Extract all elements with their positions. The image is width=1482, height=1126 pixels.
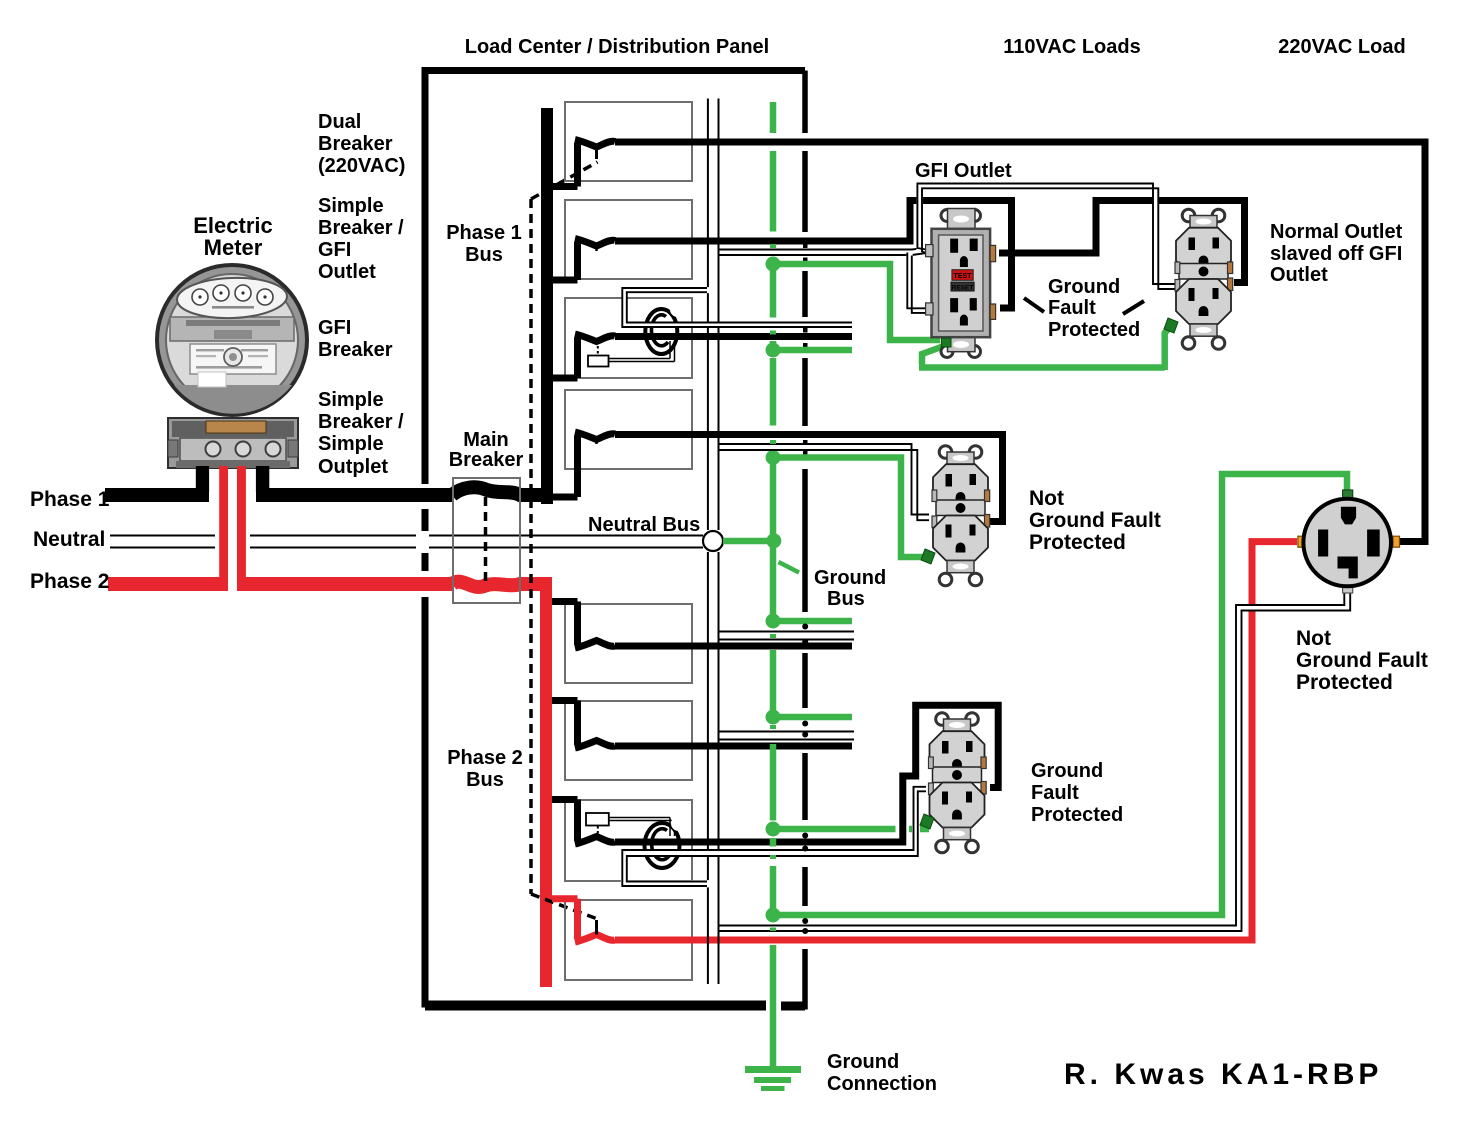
svg-text:RESET: RESET	[952, 285, 974, 292]
svg-text:Simple: Simple	[318, 389, 384, 411]
green wire row6 stub	[776, 714, 852, 721]
svg-text:Phase 1: Phase 1	[30, 488, 110, 511]
ground symbol	[745, 1070, 801, 1089]
breaker CB7 wire to bottom outlet	[615, 705, 998, 842]
green wire row5 stub	[776, 618, 852, 625]
svg-text:Ground Fault: Ground Fault	[1029, 509, 1161, 532]
svg-text:Main: Main	[463, 429, 509, 451]
phase 1 service wire	[105, 487, 553, 495]
breaker box CB4	[552, 390, 692, 497]
ground bus pointer	[779, 562, 800, 573]
breaker CB2 wire to GFI outlet	[615, 201, 1012, 309]
svg-text:R. Kwas KA1-RBP: R. Kwas KA1-RBP	[1064, 1058, 1382, 1091]
svg-text:Meter: Meter	[204, 235, 263, 260]
svg-text:TEST: TEST	[954, 273, 973, 280]
breaker CB5 wire stub	[615, 643, 852, 650]
neutral pair GFI over-top to normal outlet	[917, 184, 1176, 290]
svg-text:Phase 1: Phase 1	[446, 222, 522, 244]
neutral pair CB3 loop	[622, 288, 852, 327]
CB7 toroid	[645, 816, 687, 868]
pointer right	[1123, 301, 1144, 314]
CB3 trip coil	[588, 341, 675, 367]
ground bus junction row3	[766, 343, 781, 358]
green wire row2 to GFI outlet	[776, 264, 940, 340]
green wire row7 to bottom outlet	[776, 826, 929, 833]
svg-text:Breaker /: Breaker /	[318, 217, 404, 239]
breaker box CB5	[552, 602, 692, 684]
phase 1 bus bar	[541, 108, 553, 504]
svg-text:Ground: Ground	[1048, 276, 1120, 298]
svg-text:Protected: Protected	[1029, 531, 1126, 554]
electric meter	[157, 265, 307, 468]
neutral pair row2 to GFI	[720, 248, 927, 255]
neutral bus lines	[708, 99, 719, 985]
breaker CB8 red wire to 220V outlet	[615, 542, 1297, 940]
svg-text:Ground: Ground	[1031, 760, 1103, 782]
breaker CB6 wire stub	[615, 743, 852, 750]
ground bus junction row5	[766, 614, 781, 629]
ground bus junction row8	[766, 908, 781, 923]
svg-text:Connection: Connection	[827, 1073, 937, 1095]
green wire node to bus	[723, 538, 770, 545]
svg-text:Protected: Protected	[1031, 804, 1123, 826]
ground bus	[770, 102, 777, 1066]
breaker box CB2	[553, 200, 692, 280]
svg-text:Outlet: Outlet	[1270, 264, 1328, 286]
bottom outlet GFP	[920, 713, 986, 853]
svg-text:Outplet: Outplet	[318, 456, 388, 478]
svg-text:Neutral: Neutral	[33, 528, 105, 551]
panel edge crossing dots overlay	[802, 624, 808, 935]
breaker CB3 wire stub	[615, 333, 852, 340]
green wire row8 to 220V outlet	[776, 474, 1347, 915]
svg-text:Phase 2: Phase 2	[30, 570, 109, 593]
meter drop wires	[196, 466, 269, 581]
green wire row3 stub	[776, 347, 852, 354]
svg-text:Fault: Fault	[1031, 782, 1079, 804]
phase 2 bus bar red	[540, 577, 552, 987]
svg-text:Normal Outlet: Normal Outlet	[1270, 221, 1403, 243]
svg-text:110VAC Loads: 110VAC Loads	[1003, 36, 1140, 58]
GFI load hot wire to normal outlet	[999, 201, 1245, 283]
panel right edge segments	[802, 71, 808, 1010]
ground bus junction row7	[766, 822, 781, 837]
neutral pair row4 to middle outlet	[720, 444, 930, 520]
breaker box CB8	[552, 899, 692, 980]
svg-text:Ground: Ground	[827, 1051, 899, 1073]
CB7 trip coil	[586, 813, 675, 838]
breaker CB1 wire to 220V outlet	[615, 142, 1425, 542]
svg-text:Breaker: Breaker	[318, 339, 393, 361]
breaker box CB7 GFI	[552, 800, 692, 882]
svg-text:Breaker /: Breaker /	[318, 411, 404, 433]
svg-text:Bus: Bus	[827, 588, 865, 610]
neutral pair row5 stub	[720, 632, 855, 640]
svg-text:Phase 2: Phase 2	[447, 747, 523, 769]
svg-text:Simple: Simple	[318, 433, 384, 455]
phase 2 service wire	[108, 582, 546, 587]
svg-text:(220VAC): (220VAC)	[318, 155, 405, 177]
green bus crossing dashes overlay	[770, 244, 776, 931]
svg-text:Load Center / Distribution Pa: Load Center / Distribution Panel	[465, 36, 769, 58]
svg-text:Bus: Bus	[465, 244, 503, 266]
svg-text:GFI Outlet: GFI Outlet	[915, 160, 1012, 182]
neutral pair GFI jumper line-load	[907, 253, 926, 313]
breaker box CB1	[553, 102, 692, 187]
svg-text:Fault: Fault	[1048, 297, 1096, 319]
svg-text:Breaker: Breaker	[318, 133, 393, 155]
svg-text:Dual: Dual	[318, 111, 361, 133]
svg-text:Outlet: Outlet	[318, 261, 376, 283]
breaker box CB3 GFI	[553, 298, 692, 378]
svg-text:Ground Fault: Ground Fault	[1296, 649, 1428, 672]
svg-text:GFI: GFI	[318, 239, 351, 261]
svg-text:Not: Not	[1296, 627, 1331, 650]
panel enclosure	[425, 71, 805, 1007]
breaker tie dashed line	[531, 162, 598, 919]
neutral service pair	[110, 536, 703, 548]
svg-text:slaved off GFI: slaved off GFI	[1270, 243, 1402, 265]
green wire GFI to normal outlet	[919, 325, 1172, 370]
CB3 toroid	[645, 302, 685, 354]
neutral bus node	[703, 531, 723, 551]
svg-text:Protected: Protected	[1048, 319, 1140, 341]
svg-text:Protected: Protected	[1296, 671, 1393, 694]
neutral pair row8 to 220V outlet	[720, 593, 1351, 931]
main breaker box	[453, 478, 520, 603]
breaker CB4 wire to middle outlet	[615, 435, 1003, 522]
middle outlet not GFP	[921, 446, 990, 586]
GFI outlet	[926, 209, 996, 358]
neutral pair CB7 loop	[622, 787, 926, 886]
panel right edge crossing dots	[803, 244, 808, 456]
ground bus junction row6	[766, 710, 781, 725]
220V outlet	[1298, 490, 1400, 593]
svg-text:220VAC Load: 220VAC Load	[1278, 36, 1405, 58]
main breaker tie dashed	[484, 497, 488, 581]
ground bus junction row2	[766, 257, 781, 272]
svg-text:Simple: Simple	[318, 195, 384, 217]
ground bus junction row4	[766, 450, 781, 465]
normal outlet slaved	[1164, 209, 1233, 349]
neutral pair row6 stub	[720, 732, 855, 740]
green wire row4 to middle outlet	[776, 458, 928, 558]
svg-text:Breaker: Breaker	[449, 449, 524, 471]
svg-text:Ground: Ground	[814, 567, 886, 589]
svg-text:Neutral Bus: Neutral Bus	[588, 514, 700, 536]
breaker box CB6	[552, 701, 692, 781]
svg-text:Bus: Bus	[466, 769, 504, 791]
ground bus junction at neutral node	[766, 533, 781, 548]
svg-text:GFI: GFI	[318, 317, 351, 339]
svg-text:Not: Not	[1029, 487, 1064, 510]
pointer left	[1024, 298, 1044, 312]
